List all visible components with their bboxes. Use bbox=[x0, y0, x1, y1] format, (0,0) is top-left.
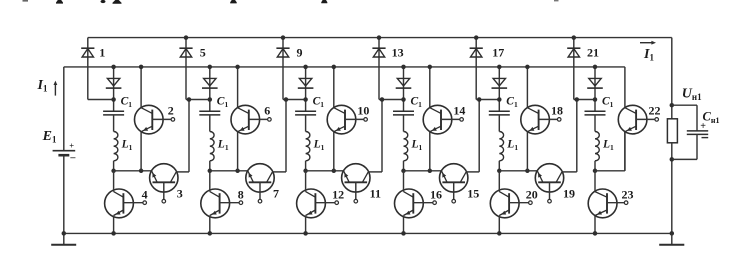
capacitor C1 (stage 3) bbox=[295, 110, 316, 112]
svg-text:5: 5 bbox=[200, 45, 206, 59]
wire: inductor to emitter node bbox=[594, 161, 596, 171]
wire: collector of VT22 bbox=[624, 67, 626, 108]
node: bottom bus / VT16 bbox=[401, 231, 406, 236]
wire: jog from diode 17 to C1 node bbox=[476, 99, 499, 101]
wire: riser to next stage jog bbox=[478, 100, 480, 172]
wire+terminal: base of VT16 bbox=[413, 202, 433, 204]
node: bottom bus / VT4 bbox=[111, 231, 116, 236]
diode (unlabelled) of stage 4 bbox=[397, 78, 409, 86]
emitter of VT11 with arrow bbox=[344, 171, 350, 182]
wire: T22 emitter corner down bbox=[624, 132, 626, 171]
transistor VT23 (lower) bbox=[588, 189, 617, 218]
transistor VT19 (middle) bbox=[535, 164, 563, 192]
svg-text:16: 16 bbox=[430, 187, 442, 201]
wire: capacitor to inductor bbox=[305, 115, 307, 132]
wire: jog from diode 13 to C1 node bbox=[379, 99, 404, 101]
label I1 (top right) with right arrow bbox=[640, 42, 654, 44]
wire: diode 1 column bbox=[87, 38, 89, 100]
diode VD17 (charging diode 17) bbox=[470, 47, 483, 49]
diode (unlabelled) of stage 5 bbox=[493, 78, 505, 86]
wire: collector of VT3 to riser bbox=[176, 171, 189, 173]
node: middle bus / stage 3 bbox=[303, 65, 308, 70]
emitter of VT10 with arrow bbox=[334, 126, 345, 132]
svg-text:17: 17 bbox=[492, 45, 504, 59]
wire: inductor to emitter node bbox=[305, 161, 307, 171]
node: upper transistor emitter joins bbox=[428, 169, 433, 174]
wire: diode 17 column bbox=[475, 38, 477, 100]
wire: riser to next stage jog bbox=[381, 100, 383, 172]
capacitor CH1 (polarized) bbox=[687, 130, 708, 132]
node: upper transistor emitter joins bbox=[235, 169, 240, 174]
wire+terminal: base of VT3 bbox=[163, 182, 165, 199]
wire: middle bus bbox=[64, 66, 625, 68]
node: load top bbox=[670, 103, 675, 108]
wire: collector of VT14 bbox=[429, 67, 431, 108]
emitter of VT6 with arrow bbox=[238, 126, 249, 132]
transistor VT18 (upper) bbox=[521, 105, 550, 134]
transistor VT8 (lower) bbox=[201, 189, 230, 218]
wire: top bus bbox=[88, 37, 672, 39]
node: middle bus / VT6 collector bbox=[235, 65, 240, 70]
wire+terminal: base of VT11 bbox=[355, 182, 357, 199]
svg-text:9: 9 bbox=[297, 45, 303, 59]
wire: emitter rail stage 2 bbox=[210, 170, 248, 172]
wire: emitter rail stage 1 bbox=[114, 170, 152, 172]
transistor VT4 (lower) bbox=[105, 189, 134, 218]
emitter of VT3 with arrow bbox=[152, 171, 158, 182]
transistor VT6 (upper) bbox=[231, 105, 260, 134]
node: bottom bus / VT8 bbox=[208, 231, 213, 236]
node: top bus / diode 13 bbox=[377, 35, 382, 40]
svg-text:14: 14 bbox=[453, 103, 465, 117]
node: top bus / diode 9 bbox=[281, 35, 286, 40]
wire: riser to next stage jog bbox=[285, 100, 287, 172]
node: middle bus / stage 6 bbox=[593, 65, 598, 70]
transistor VT10 (upper) bbox=[327, 105, 356, 134]
wire: collector of VT20 bbox=[498, 171, 500, 192]
wire: left rail upper bbox=[63, 67, 65, 150]
wire: right rail top bbox=[671, 38, 673, 119]
emitter of VT14 with arrow bbox=[430, 126, 441, 132]
emitter of VT7 with arrow bbox=[248, 171, 254, 182]
wire: inductor to emitter node bbox=[209, 161, 211, 171]
node: stage 4 emitter-wire left bbox=[401, 169, 406, 174]
collector of VT19 bbox=[556, 172, 562, 182]
node: middle bus / VT10 collector bbox=[332, 65, 337, 70]
battery E1 bbox=[53, 150, 76, 152]
node: upper transistor emitter joins bbox=[332, 169, 337, 174]
inductor L1 (stage 1) bbox=[114, 132, 118, 161]
transistor VT2 (upper) bbox=[135, 105, 164, 134]
node: riser junction on jog bbox=[380, 97, 385, 102]
wire: capacitor to inductor bbox=[594, 115, 596, 132]
svg-text:10: 10 bbox=[357, 103, 369, 117]
node: top bus / diode 17 bbox=[474, 35, 479, 40]
svg-text:12: 12 bbox=[332, 187, 344, 201]
wire: collector of VT15 to riser bbox=[466, 171, 479, 173]
capacitor C1 (stage 6) bbox=[585, 110, 606, 112]
wire+terminal: base of VT6 bbox=[249, 118, 268, 120]
wire: emitter of VT10 down bbox=[333, 132, 335, 171]
wire+terminal: base of VT20 bbox=[509, 202, 528, 204]
svg-text:2: 2 bbox=[168, 103, 174, 117]
wire: collector of VT7 to riser bbox=[272, 171, 286, 173]
wire: collector of VT8 bbox=[209, 171, 211, 192]
node: top bus / diode 5 bbox=[184, 35, 189, 40]
ground (right) bbox=[671, 233, 673, 244]
svg-text:–: – bbox=[69, 152, 76, 163]
transistor VT15 (middle) bbox=[440, 164, 468, 192]
emitter of VT4 with arrow bbox=[114, 210, 124, 216]
wire: diode 21 column bbox=[573, 38, 575, 100]
emitter of VT8 with arrow bbox=[210, 210, 220, 216]
svg-text:15: 15 bbox=[467, 186, 479, 200]
wire+terminal: base of VT22 bbox=[636, 118, 655, 120]
wire: emitter of VT18 down bbox=[526, 132, 528, 171]
node: middle bus / VT14 collector bbox=[428, 65, 433, 70]
node: C1 top node bbox=[111, 97, 116, 102]
wire: bottom bus bbox=[64, 232, 672, 234]
wire+terminal: base of VT12 bbox=[315, 202, 335, 204]
wire: diode 9 column bbox=[282, 38, 284, 100]
inductor L1 (stage 6) bbox=[595, 132, 599, 161]
wire: emitter of VT8 to bottom bus bbox=[209, 216, 211, 234]
transistor VT7 (middle) bbox=[246, 164, 274, 192]
wire: collector of VT19 to riser bbox=[562, 171, 577, 173]
inductor L1 (stage 2) bbox=[210, 132, 214, 161]
wire: collector of VT2 bbox=[140, 67, 142, 108]
node: middle bus / VT18 collector bbox=[525, 65, 530, 70]
wire: jog from diode 5 to C1 node bbox=[186, 99, 210, 101]
wire: collector of VT16 bbox=[403, 171, 405, 192]
node: riser junction on jog bbox=[284, 97, 289, 102]
wire: diode 5 column bbox=[185, 38, 187, 100]
node: stage 2 emitter-wire left bbox=[208, 169, 213, 174]
emitter of VT22 with arrow bbox=[625, 126, 636, 132]
node: C1 top node bbox=[593, 97, 598, 102]
wire+terminal: base of VT4 bbox=[123, 202, 142, 204]
wire: jog from diode 1 to C1 node bbox=[88, 99, 114, 101]
svg-text:19: 19 bbox=[563, 186, 575, 200]
wire: emitter of VT16 to bottom bus bbox=[403, 216, 405, 234]
wire: emitter rail stage 4 bbox=[404, 170, 442, 172]
emitter of VT16 with arrow bbox=[404, 210, 414, 216]
transistor VT22 (upper) bbox=[618, 105, 647, 134]
wire: capacitor to inductor bbox=[113, 115, 115, 132]
wire: stage 6 C1 column (bus to capacitor) bbox=[594, 67, 596, 112]
svg-text:6: 6 bbox=[264, 103, 270, 117]
node: stage 5 emitter-wire left bbox=[497, 169, 502, 174]
diode (unlabelled) of stage 1 bbox=[107, 78, 119, 86]
inductor L1 (stage 5) bbox=[499, 132, 503, 161]
wire: stage 1 C1 column (bus to capacitor) bbox=[113, 67, 115, 112]
wire: stage 2 C1 column (bus to capacitor) bbox=[209, 67, 211, 112]
wire+terminal: base of VT8 bbox=[220, 202, 240, 204]
wire: inductor to emitter node bbox=[498, 161, 500, 171]
diode VD9 (charging diode 9) bbox=[276, 47, 289, 49]
wire: collector of VT23 bbox=[594, 171, 596, 192]
wire: capacitor branch top bbox=[672, 104, 697, 106]
emitter of VT15 with arrow bbox=[442, 171, 448, 182]
node: bottom bus / VT20 bbox=[497, 231, 502, 236]
wire: stage 5 C1 column (bus to capacitor) bbox=[498, 67, 500, 112]
wire+terminal: base of VT2 bbox=[152, 118, 171, 120]
node: C1 top node bbox=[497, 97, 502, 102]
capacitor C1 (stage 1) bbox=[103, 110, 124, 112]
emitter of VT18 with arrow bbox=[527, 126, 538, 132]
node: riser junction on jog bbox=[477, 97, 482, 102]
diode VD1 (charging diode 1) bbox=[81, 47, 94, 49]
inductor L1 (stage 4) bbox=[404, 132, 408, 161]
node: right rail / bottom bus bbox=[670, 231, 675, 236]
wire: emitter of VT23 to bottom bus bbox=[594, 216, 596, 234]
svg-text:11: 11 bbox=[370, 186, 381, 200]
node: middle bus / stage 5 bbox=[497, 65, 502, 70]
diode (unlabelled) of stage 2 bbox=[204, 78, 216, 86]
wire: emitter of VT4 to bottom bus bbox=[113, 216, 115, 234]
node: riser junction on jog bbox=[187, 97, 192, 102]
wire+terminal: base of VT14 bbox=[441, 118, 460, 120]
node: left rail / bottom bus bbox=[62, 231, 67, 236]
transistor VT12 (lower) bbox=[297, 189, 326, 218]
transistor VT11 (middle) bbox=[342, 164, 370, 192]
capacitor C1 (stage 5) bbox=[489, 110, 510, 112]
wire: inductor to emitter node bbox=[113, 161, 115, 171]
collector of VT15 bbox=[460, 172, 466, 182]
wire: emitter of VT12 to bottom bus bbox=[305, 216, 307, 234]
transistor VT20 (lower) bbox=[490, 189, 519, 218]
svg-text:1: 1 bbox=[99, 45, 105, 59]
wire: collector of VT6 bbox=[237, 67, 239, 108]
node: middle bus / stage 1 bbox=[111, 65, 116, 70]
collector of VT7 bbox=[267, 172, 273, 182]
emitter of VT20 with arrow bbox=[499, 210, 509, 216]
transistor VT3 (middle) bbox=[150, 164, 178, 192]
node: middle bus / stage 4 bbox=[401, 65, 406, 70]
svg-text:22: 22 bbox=[649, 103, 661, 117]
wire: inductor to emitter node bbox=[403, 161, 405, 171]
wire+terminal: base of VT15 bbox=[453, 182, 455, 199]
wire: emitter of VT14 down bbox=[429, 132, 431, 171]
wire: right rail bottom bbox=[671, 143, 673, 234]
node: stage 1 emitter-wire left bbox=[111, 169, 116, 174]
svg-text:18: 18 bbox=[551, 103, 563, 117]
wire: stage 3 C1 column (bus to capacitor) bbox=[305, 67, 307, 112]
wire: collector of VT10 bbox=[333, 67, 335, 108]
svg-text:23: 23 bbox=[622, 187, 634, 201]
svg-text:3: 3 bbox=[177, 186, 183, 200]
wire: left rail lower bbox=[63, 156, 65, 234]
wire: emitter of VT6 down bbox=[237, 132, 239, 171]
node: middle bus / stage 2 bbox=[208, 65, 213, 70]
node: upper transistor emitter joins bbox=[139, 169, 144, 174]
node: bottom bus / VT12 bbox=[303, 231, 308, 236]
wire: capacitor branch bottom bbox=[696, 134, 698, 159]
wire: emitter rail stage 3 bbox=[306, 170, 344, 172]
node: stage 3 emitter-wire left bbox=[303, 169, 308, 174]
emitter of VT19 with arrow bbox=[537, 171, 543, 182]
wire: capacitor to inductor bbox=[403, 115, 405, 132]
wire+terminal: base of VT10 bbox=[345, 118, 364, 120]
emitter of VT12 with arrow bbox=[306, 210, 316, 216]
svg-text:7: 7 bbox=[273, 186, 279, 200]
wire: emitter of VT20 to bottom bus bbox=[498, 216, 500, 234]
node: riser junction on jog bbox=[575, 97, 580, 102]
wire: capacitor to inductor bbox=[498, 115, 500, 132]
wire: diode 13 column bbox=[378, 38, 380, 100]
node: middle bus / VT2 collector bbox=[139, 65, 144, 70]
emitter of VT23 with arrow bbox=[595, 210, 607, 216]
diode VD13 (charging diode 13) bbox=[372, 47, 385, 49]
collector of VT11 bbox=[362, 172, 368, 182]
wire: riser to next stage jog bbox=[188, 100, 190, 172]
diode (unlabelled) of stage 3 bbox=[299, 78, 311, 86]
collector of VT3 bbox=[170, 172, 176, 182]
diode (unlabelled) of stage 6 bbox=[589, 78, 601, 86]
transistor VT16 (lower) bbox=[395, 189, 424, 218]
wire: jog from diode 9 to C1 node bbox=[283, 99, 306, 101]
wire: collector of VT12 bbox=[305, 171, 307, 192]
node: stage 6 emitter-wire left bbox=[593, 169, 598, 174]
svg-text:4: 4 bbox=[142, 187, 148, 201]
wire: collector of VT11 to riser bbox=[368, 171, 382, 173]
wire+terminal: base of VT19 bbox=[549, 182, 551, 199]
node: C1 top node bbox=[401, 97, 406, 102]
transistor VT14 (upper) bbox=[423, 105, 452, 134]
wire: jog from diode 21 to C1 node bbox=[574, 99, 595, 101]
svg-text:8: 8 bbox=[238, 187, 244, 201]
ground (left) bbox=[63, 233, 65, 244]
wire+terminal: base of VT7 bbox=[259, 182, 261, 199]
svg-text:13: 13 bbox=[392, 45, 404, 59]
wire: collector of VT18 bbox=[526, 67, 528, 108]
node: bottom bus / VT23 bbox=[593, 231, 598, 236]
wire: capacitor to inductor bbox=[209, 115, 211, 132]
node: C1 top node bbox=[303, 97, 308, 102]
wire+terminal: base of VT23 bbox=[607, 202, 624, 204]
diode VD21 (charging diode 21) bbox=[567, 47, 580, 49]
wire+terminal: base of VT18 bbox=[539, 118, 558, 120]
node: top bus / diode 21 bbox=[572, 35, 577, 40]
capacitor C1 (stage 4) bbox=[393, 110, 414, 112]
wire: riser to next stage jog bbox=[576, 100, 578, 172]
wire: collector of VT4 bbox=[113, 171, 115, 192]
node: upper transistor emitter joins bbox=[525, 169, 530, 174]
wire: emitter rail stage 5 bbox=[499, 170, 537, 172]
diode VD5 (charging diode 5) bbox=[179, 47, 192, 49]
node: C1 top node bbox=[208, 97, 213, 102]
svg-text:+: + bbox=[69, 141, 74, 151]
wire: stage 4 C1 column (bus to capacitor) bbox=[403, 67, 405, 112]
wire: emitter of VT22 down bbox=[624, 132, 626, 171]
resistor load (rectangle) bbox=[667, 119, 677, 143]
emitter of VT2 with arrow bbox=[141, 126, 152, 132]
node: load bottom bbox=[670, 157, 675, 162]
capacitor C1 (stage 2) bbox=[199, 110, 220, 112]
wire: emitter of VT2 down bbox=[140, 132, 142, 171]
svg-text:20: 20 bbox=[526, 187, 538, 201]
wire: emitter rail stage 6 bbox=[595, 170, 625, 172]
svg-text:21: 21 bbox=[587, 45, 599, 59]
inductor L1 (stage 3) bbox=[306, 132, 310, 161]
clipped caption text fragments (top edge) bbox=[23, 0, 559, 4]
